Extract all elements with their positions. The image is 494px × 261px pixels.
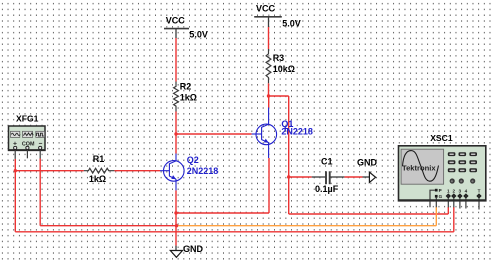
svg-text:10kΩ: 10kΩ xyxy=(273,64,295,74)
svg-text:0.1µF: 0.1µF xyxy=(315,184,339,194)
svg-text:4: 4 xyxy=(465,189,468,194)
svg-text:G: G xyxy=(439,194,443,199)
svg-text:5.0V: 5.0V xyxy=(282,18,301,28)
svg-text:2N2218: 2N2218 xyxy=(187,166,219,176)
svg-text:2N2218: 2N2218 xyxy=(281,127,313,137)
svg-text:3: 3 xyxy=(459,189,462,194)
svg-text:P: P xyxy=(439,188,442,193)
svg-text:R3: R3 xyxy=(273,53,285,63)
svg-text:GND: GND xyxy=(357,157,378,167)
svg-text:VCC: VCC xyxy=(256,3,276,13)
svg-text:GND: GND xyxy=(183,244,204,254)
svg-text:T: T xyxy=(478,189,481,194)
svg-text:R1: R1 xyxy=(93,154,105,164)
svg-text:XSC1: XSC1 xyxy=(430,133,453,143)
svg-text:XFG1: XFG1 xyxy=(16,113,39,123)
svg-text:2: 2 xyxy=(453,189,456,194)
svg-text:5.0V: 5.0V xyxy=(189,30,208,40)
svg-text:1kΩ: 1kΩ xyxy=(180,92,197,102)
svg-text:Q2: Q2 xyxy=(187,155,199,165)
svg-text:R2: R2 xyxy=(180,82,192,92)
svg-text:Tektronix: Tektronix xyxy=(402,164,436,173)
svg-text:VCC: VCC xyxy=(166,16,186,26)
svg-text:1: 1 xyxy=(447,189,450,194)
svg-text:1kΩ: 1kΩ xyxy=(89,174,106,184)
svg-text:C1: C1 xyxy=(321,157,333,167)
